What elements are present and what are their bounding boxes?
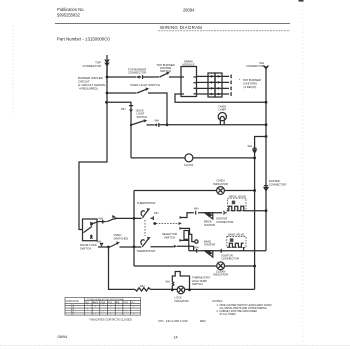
node back light switch pivot [130,124,132,126]
wire neutral run bottom [151,288,255,290]
node back light tap [105,101,108,104]
wire oven switch upper row [97,221,107,223]
label selector switch [162,232,177,239]
indicator oven lamp neon [217,187,225,195]
label igniter connector right bus [269,179,286,186]
switch oven upper [107,215,115,221]
label broil ignitor [204,220,215,227]
scan artifact bottom dotted rule [0,344,350,346]
label oven switches [114,233,129,240]
svg-text:NOTES: NOTES [212,299,222,303]
svg-text:CONTACTS: CONTACTS [66,300,79,303]
connector top burner [136,75,146,79]
svg-text:WH: WH [194,207,199,211]
lamp oven lamp [218,113,226,125]
svg-text:IGNITOR: IGNITOR [204,243,215,247]
wire broil return [245,210,266,212]
node igniter tap [106,76,109,79]
node right bus top bus join [265,101,268,104]
connector igniter broil row [220,211,226,215]
header publication number [57,7,85,18]
wire neutral run bottom left [109,247,136,289]
indicator lock lamp [177,286,185,294]
selector wiper plate [184,231,189,240]
svg-text:* INDICATES CONTACTS CLOSED: * INDICATES CONTACTS CLOSED [89,318,132,322]
connector igniter on right bus [264,186,268,191]
selector contact bake [179,239,182,242]
wire lamp line [159,124,266,126]
svg-text:4 REQUIRED): 4 REQUIRED) [79,87,98,91]
label top burner connector [128,67,146,74]
wire selector link dash-dot [153,222,181,225]
selector mid loop terminal [195,240,198,243]
connector WH oven switch lower [100,243,103,246]
switch oven light [137,88,167,125]
svg-text:SWITCH: SWITCH [164,235,175,239]
wire broil row [200,212,222,214]
wire ignitor leads with electrode tips [222,75,232,96]
svg-text:BROIL VALVE: BROIL VALVE [229,194,246,198]
label bake ignitor [204,239,215,246]
svg-text:*: * [118,309,119,311]
header rule [55,23,290,25]
node center feed lower junction [133,246,136,249]
svg-text:MODULE: MODULE [183,63,195,67]
table row labels and marks [71,304,134,316]
svg-text:*: * [87,309,88,311]
svg-text:*: * [110,314,111,316]
svg-text:*: * [126,312,127,314]
svg-text:*: * [110,307,111,309]
connector igniter bake row [220,249,223,253]
wire oven switch lower row [98,246,109,248]
svg-text:CONNECTOR: CONNECTOR [82,64,101,68]
node inner bus clock join [253,157,256,160]
connector WH broil row [195,211,200,215]
label back light switch [137,109,148,119]
wire center feed vertical [133,191,135,267]
connector WH top right symbol [264,65,269,68]
svg-text:*: * [133,314,134,316]
svg-text:28094: 28094 [183,8,195,13]
svg-text:THERMOSTAT: THERMOSTAT [137,201,156,205]
label TOP CONNECTOR [82,61,101,68]
node inner bus oven indicator join [253,189,256,192]
clock motor [185,154,193,162]
wire back light feed [107,102,132,158]
svg-text:(4 REQ'D): (4 REQ'D) [244,85,257,89]
label thermostat high temp switch [192,276,210,287]
label ignitor connector bake [222,253,239,260]
svg-text:INDICATOR: INDICATOR [213,182,228,186]
svg-text:*: * [103,312,104,314]
svg-text:CONNECTOR: CONNECTOR [128,71,146,75]
selector contact broil [180,216,183,219]
ignitor bake [205,251,213,257]
wire thermostat link dashed [144,220,146,236]
spark module U1 [181,67,197,97]
node right bus broil return join [265,209,268,212]
svg-text:SWITCH: SWITCH [80,246,91,250]
scan artifact corner mark [299,0,304,2]
svg-text:DLY: DLY [131,302,135,304]
wire to igniter switch [146,76,159,78]
selector wiper arrow [174,245,177,248]
svg-text:WH: WH [155,119,160,123]
label oven indicator [213,179,228,186]
svg-text:WH: WH [99,217,104,221]
label oven lamp [218,104,226,111]
svg-text:OVEN LIGHT SWITCH: OVEN LIGHT SWITCH [130,83,160,87]
connector WH bake row [195,249,198,253]
svg-text:CONNECTOR: CONNECTOR [222,257,239,261]
wire left bus L1 vertical [79,65,107,230]
svg-text:AT ALL TIMES: AT ALL TIMES [220,313,236,316]
switch top burner igniter [160,72,182,77]
svg-text:CONNECTOR: CONNECTOR [216,220,233,224]
svg-text:CLN: CLN [108,302,113,304]
broil valve box dashed [228,198,247,210]
svg-text:THERMOSTAT: THERMOSTAT [137,249,156,253]
label spark module [183,59,195,66]
selector contact mid [179,227,182,230]
wire selector bake jog [177,246,194,251]
svg-text:OVN: OVN [124,302,129,304]
svg-text:*: * [118,305,119,307]
label burner igniter circuit [78,76,106,91]
svg-text:5995255832: 5995255832 [57,13,80,18]
wire bake corner [181,240,188,250]
wire right inner bus jog [255,137,266,290]
wire oven light switch row [107,92,137,94]
label clean indicator [213,269,228,276]
connector WH lamp line [154,123,158,127]
node light switch tap [106,92,109,95]
bake valve coil [228,243,244,251]
node lower row junction [107,246,110,249]
broil valve bias element [232,201,235,205]
notes text [217,304,272,316]
door lock lower contact [90,222,97,238]
svg-text:CONNECTOR: CONNECTOR [246,64,264,68]
svg-text:08/94: 08/94 [58,334,69,339]
svg-text:*: * [103,305,104,307]
svg-text:SWITCHES: SWITCHES [114,236,129,240]
wire clock line [131,157,255,159]
svg-text:BAKE: BAKE [93,301,99,304]
switch door lock blade [84,226,93,232]
svg-text:14: 14 [174,336,178,340]
wire broil row riser [182,213,194,218]
connector block top burner ignitors [208,73,222,97]
wire right bus N vertical [265,66,267,251]
svg-text:REV: REV [200,319,206,323]
connector WH oven switch upper [101,220,104,224]
svg-text:INDICATOR: INDICATOR [175,299,189,303]
svg-text:P/N - 131 0-000 0 C00: P/N - 131 0-000 0 C00 [159,319,188,323]
svg-text:WH: WH [97,240,102,244]
svg-text:WH: WH [154,211,159,215]
svg-text:*: * [95,307,96,309]
indicator clean lamp neon [217,262,225,270]
svg-text:WH: WH [166,280,170,284]
high temp switch box [172,272,189,290]
node center feed upper junction [133,217,136,220]
label top burner ignitors [239,78,261,89]
bake valve box dashed [227,237,246,248]
door lock upper contact [90,222,93,225]
svg-text:CONNECTOR: CONNECTOR [269,182,286,186]
top connector symbol [104,55,109,77]
scan artifact dotted left margin [12,26,14,115]
ignitor broil [205,213,213,219]
svg-text:SWITCH: SWITCH [160,69,171,73]
label WH connector top right [246,61,264,68]
thermostat upper [141,208,154,220]
contact chart table [65,298,141,316]
node high temp left [171,289,174,292]
wire bake row [189,249,266,251]
wire spark module output rows [197,76,209,94]
svg-text:SWITCH: SWITCH [137,115,148,119]
node inner bus clean line join [253,265,256,268]
title underline [158,30,290,32]
wire upper row to thermostat [115,217,142,219]
wire top burner igniter row [107,76,136,78]
wire lower row to selector [151,246,174,248]
svg-text:WH: WH [194,246,199,250]
svg-text:Part Number - 13150000C0: Part Number - 13150000C0 [57,37,110,42]
svg-text:*: * [87,305,88,307]
svg-text:IGNITOR: IGNITOR [204,223,215,227]
label lock indicator [175,296,189,303]
switch back light [131,119,155,125]
svg-text:CLOCK: CLOCK [184,163,194,167]
svg-text:*: * [133,307,134,309]
wire selector mid stub [181,228,194,241]
svg-text:*: * [95,314,96,316]
connector WH back light [129,106,133,113]
svg-text:LAMP: LAMP [218,108,226,112]
svg-text:Publication No.: Publication No. [57,7,85,12]
label door lock switch [80,243,97,250]
connector WH inner bus [253,148,257,153]
bake valve bias element [230,238,234,241]
svg-text:* POSITION SELECTOR SWITCH: * POSITION SELECTOR SWITCH (SEE) [86,299,124,301]
svg-text:WH: WH [140,284,145,288]
svg-text:WH: WH [121,107,126,111]
switch oven lower [110,242,141,248]
wire main top bus from spark module [175,94,266,102]
svg-text:BAKE VALVE: BAKE VALVE [228,233,244,237]
label top burner igniter switch [156,63,174,73]
node right bus lamp line join [265,123,268,126]
node high temp right [188,289,191,292]
node oven switch upper out [114,217,116,219]
broil valve coil [227,206,246,210]
svg-text:WIRING DIAGRAM: WIRING DIAGRAM [160,25,202,30]
label ignitor connector broil [216,217,233,224]
wire clean indicator line [134,265,255,267]
svg-text:WH: WH [248,144,253,148]
node lamp line junction [166,123,169,126]
door lock switch box [83,219,98,241]
table header text [66,299,136,304]
svg-text:SWITCH: SWITCH [192,282,203,286]
svg-text:INDICATOR: INDICATOR [213,273,228,277]
wire element zigzag [135,288,150,291]
scan artifact dotted right margin [302,2,304,345]
wire oven indicator line [134,190,255,192]
node right bus jog join [265,135,268,138]
thermostat lower [141,237,151,247]
